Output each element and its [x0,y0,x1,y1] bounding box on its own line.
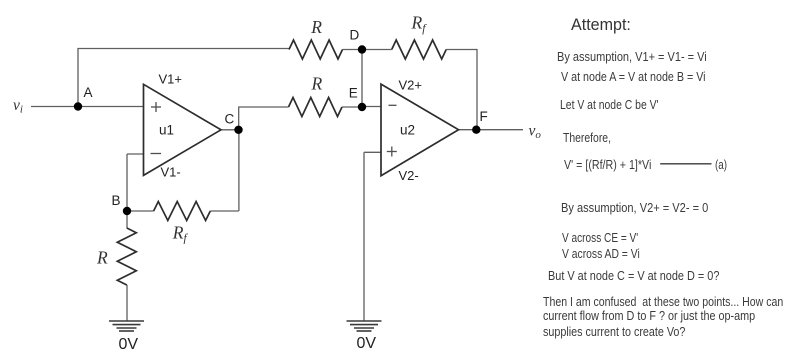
wire node E to u2 inverting input [362,106,381,108]
svg-text:C: C [225,112,235,127]
wire u1 inverting input lead [127,153,144,155]
note line 3 [560,98,659,111]
node C junction dot [234,126,242,134]
svg-text:V2+: V2+ [399,78,423,93]
wire node B down to resistor R [126,211,128,228]
svg-text:F: F [480,109,488,124]
wire corner down to node F [476,49,478,130]
wire resistor R to ground 1 [126,285,128,321]
svg-text:u1: u1 [159,123,174,138]
equation (a) reference dash [660,163,711,165]
wire Rf right end to riser [210,210,239,212]
resistor R1 (top, between A and D) [289,40,343,59]
resistor R2 (middle, between C and E) [289,98,343,117]
node D junction dot [358,45,366,53]
wire top horizontal from A to resistor R [77,48,289,50]
node F junction dot [472,126,480,134]
resistor Rf2 (between B and C riser) [154,202,211,221]
ground 2 (0V under u2 + input) [347,321,382,331]
svg-text:V2-: V2- [399,168,419,183]
svg-text:D: D [350,28,360,43]
wire node D down to node E [361,50,363,108]
note line 2 [561,70,706,83]
note line 10 [543,295,783,308]
note line 11 [543,309,755,322]
wire node D to resistor Rf [362,49,392,51]
wire resistor R to node D [343,49,363,51]
op-amp U2 triangle [381,84,459,176]
wire u1 inverting input down to node B [126,154,128,211]
node B junction dot [123,207,131,215]
wire node B to resistor Rf [127,210,154,212]
resistor Rf1 (top, between D and F) [392,40,447,59]
svg-text:V1+: V1+ [159,72,183,87]
wire node A riser up [77,49,79,108]
wire u2 non-inverting input down to ground 2 [363,152,365,321]
svg-text:A: A [84,85,93,100]
svg-text:vo: vo [529,123,542,142]
svg-text:Rf: Rf [411,13,428,35]
wire u2 non-inverting input lead [364,151,381,153]
svg-text:u2: u2 [400,123,415,138]
note line 5 equation [564,158,651,171]
u2 plus input sign [387,151,397,153]
svg-text:0V: 0V [357,335,377,352]
ground 1 (0V under resistor R3) [109,321,144,331]
u1 plus input sign [151,106,161,108]
wire u2 output to node F and vo [459,129,524,131]
svg-text:R: R [311,74,323,94]
wire C riser to middle resistor R [239,106,289,108]
svg-text:V1-: V1- [161,165,181,180]
note line 7 [562,231,638,244]
note line 9 [548,269,719,282]
wire vi lead to op-amp u1 + input through node A [31,106,144,108]
op-amp U1 triangle [144,84,222,175]
node E junction dot [358,103,366,111]
node A junction dot [74,102,82,110]
svg-text:R: R [96,248,108,268]
svg-text:R: R [310,17,322,37]
wire middle resistor R to node E [342,106,362,108]
note line 4 [563,131,611,144]
equation tag (a) [715,158,727,171]
note line 1 [557,50,707,63]
svg-text:0V: 0V [119,336,139,353]
svg-text:Rf: Rf [172,222,189,244]
u2 minus input sign [389,104,397,106]
svg-text:B: B [112,193,121,208]
svg-text:vi: vi [13,97,23,116]
note line 6 [561,201,708,214]
wire node C riser down to Rf row [238,130,240,211]
svg-text:E: E [349,86,358,101]
resistor R3 (vertical, B to ground) [117,228,136,285]
note line 12 [543,325,685,338]
u1 minus input sign [151,153,162,155]
note line 8 [562,247,640,260]
wire u1 output to node C [221,129,239,131]
wire node C riser up [238,107,240,130]
wire Rf to corner above F [446,49,477,51]
attempt heading [571,17,631,34]
